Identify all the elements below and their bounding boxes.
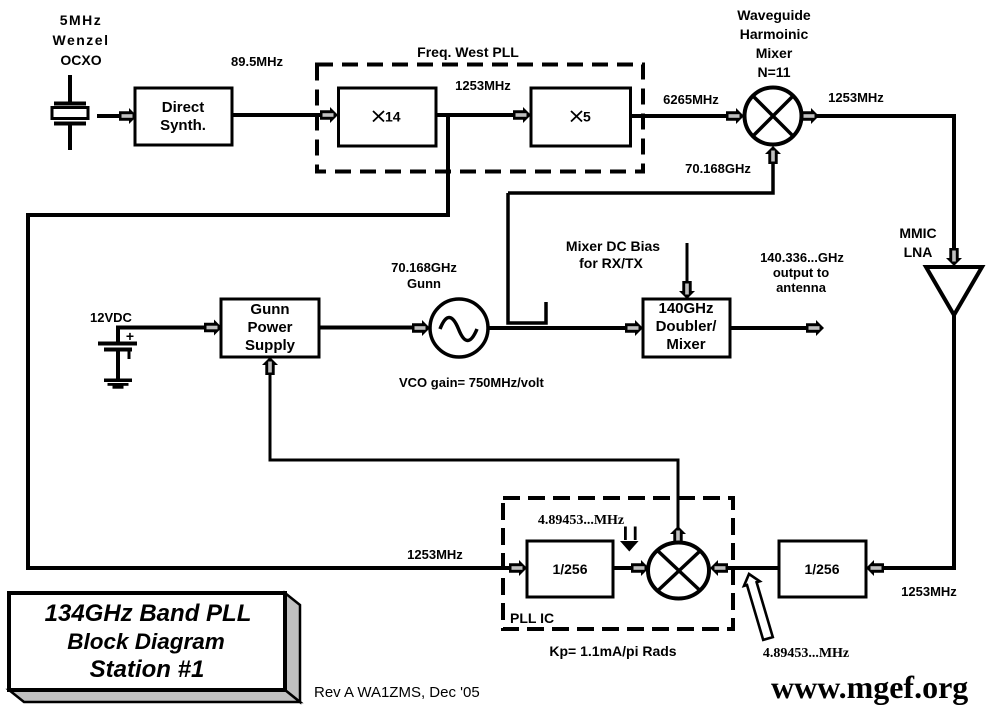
wire mixer DC bias [686, 243, 689, 285]
svg-text:Direct: Direct [162, 99, 205, 116]
wire doubler output [730, 326, 806, 330]
mixer U2 phase detector [648, 543, 709, 599]
dashed box Freq. West PLL [317, 65, 643, 172]
wire X14 to X5 [436, 113, 516, 117]
box 140GHz Doubler/Mixer [643, 299, 730, 357]
arrow slanted callout to 4.89453 node [744, 574, 773, 640]
wire 70GHz run to harmonic mixer [508, 158, 773, 193]
amplifier MMIC LNA triangle [926, 267, 982, 315]
wire Gunn PS to Gunn oscillator [318, 326, 416, 330]
wire 70GHz pickup hook near Gunn [508, 193, 546, 323]
svg-text:MMIC: MMIC [899, 225, 936, 241]
svg-text:Power: Power [247, 319, 292, 336]
wire feedback from X14 junction to left 1/256 [28, 113, 512, 568]
wire LNA down to right 1/256 divider [882, 313, 954, 568]
arrow into harmonic mixer bottom [765, 146, 781, 164]
dashed box PLL IC [503, 498, 733, 629]
svg-text:5MHz: 5MHz [60, 12, 103, 28]
svg-text:1253MHz: 1253MHz [455, 78, 511, 93]
svg-text:OCXO: OCXO [60, 52, 101, 68]
svg-text:Synth.: Synth. [160, 117, 206, 134]
arrow into phase detector right [710, 560, 728, 576]
arrow into Gunn oscillator [412, 320, 430, 336]
svg-text:1253MHz: 1253MHz [828, 90, 884, 105]
svg-text:output to: output to [773, 265, 829, 280]
oscillator Gunn VCO [430, 299, 488, 357]
arrow double chevron down [620, 527, 639, 552]
wire PLL control: phase detector to Gunn PS [270, 370, 678, 528]
box Direct Synth [135, 88, 232, 145]
svg-text:Gunn: Gunn [407, 276, 441, 291]
svg-text:for RX/TX: for RX/TX [579, 255, 643, 271]
svg-text:6265MHz: 6265MHz [663, 92, 719, 107]
wire battery to Gunn Power Supply [116, 326, 207, 330]
arrow into Direct Synth [119, 108, 137, 124]
crystal Y1 (5MHz OCXO) [52, 75, 88, 150]
svg-text:Station #1: Station #1 [90, 656, 205, 683]
svg-text:Kp= 1.1mA/pi Rads: Kp= 1.1mA/pi Rads [549, 643, 676, 659]
svg-text:N=11: N=11 [757, 64, 790, 80]
arrow into phase detector left [631, 560, 649, 576]
arrow into right 1/256 divider [866, 560, 884, 576]
box Gunn Power Supply [221, 299, 319, 357]
label 140.336...GHz output to antenna [760, 250, 844, 295]
arrow out of harmonic mixer (right) [801, 108, 819, 124]
svg-text:4.89453...MHz: 4.89453...MHz [763, 646, 849, 661]
title block 3D box [9, 593, 300, 702]
wire Gunn oscillator to doubler [488, 326, 628, 330]
svg-text:PLL IC: PLL IC [510, 610, 554, 626]
wire right 1/256 to phase detector [722, 566, 779, 570]
svg-text:VCO gain= 750MHz/volt: VCO gain= 750MHz/volt [399, 375, 545, 390]
battery BT1 12VDC [98, 327, 137, 380]
arrow into left 1/256 [509, 560, 527, 576]
svg-text:Doubler/: Doubler/ [656, 318, 718, 335]
arrow into X5 [513, 107, 531, 123]
svg-text:5: 5 [583, 109, 591, 125]
label MMIC LNA [899, 225, 936, 260]
svg-text:Rev A WA1ZMS, Dec '05: Rev A WA1ZMS, Dec '05 [314, 684, 480, 701]
box right 1/256 divider [779, 541, 866, 597]
svg-text:4.89453...MHz: 4.89453...MHz [538, 513, 624, 528]
wire X5 to harmonic mixer [630, 114, 729, 118]
svg-text:89.5MHz: 89.5MHz [231, 54, 284, 69]
svg-text:140GHz: 140GHz [658, 300, 713, 317]
svg-text:Mixer DC Bias: Mixer DC Bias [566, 238, 660, 254]
label Mixer DC Bias for RX/TX [566, 238, 660, 271]
mixer U1 waveguide harmonic mixer [745, 88, 802, 145]
svg-text:14: 14 [385, 109, 401, 125]
svg-text:Waveguide: Waveguide [737, 7, 811, 23]
box left 1/256 divider [527, 541, 613, 597]
wire crystal to Direct Synth [97, 114, 122, 118]
svg-text:Mixer: Mixer [666, 336, 705, 353]
label Waveguide Harmoinic Mixer N=11 [737, 7, 811, 80]
arrow out of phase detector top [670, 526, 686, 544]
arrow into doubler top [679, 281, 695, 299]
wire Direct Synth to X14 [232, 113, 323, 117]
svg-text:70.168GHz: 70.168GHz [685, 161, 751, 176]
label 5MHz Wenzel OCXO [53, 12, 110, 68]
svg-text:1/256: 1/256 [804, 561, 839, 577]
svg-text:1253MHz: 1253MHz [901, 584, 957, 599]
svg-text:12VDC: 12VDC [90, 310, 133, 325]
svg-text:70.168GHz: 70.168GHz [391, 260, 457, 275]
svg-text:Supply: Supply [245, 337, 296, 354]
svg-text:Harmoinic: Harmoinic [740, 26, 809, 42]
svg-text:Mixer: Mixer [756, 45, 793, 61]
arrow into Gunn PS bottom [262, 357, 278, 375]
svg-text:Freq. West PLL: Freq. West PLL [417, 44, 519, 60]
wire left 1/256 to phase detector [613, 566, 634, 570]
svg-text:140.336...GHz: 140.336...GHz [760, 250, 844, 265]
arrow into doubler [625, 320, 643, 336]
label 70.168GHz Gunn [391, 260, 457, 291]
svg-text:134GHz Band PLL: 134GHz Band PLL [45, 600, 252, 627]
arrow into MMIC LNA [946, 248, 962, 266]
svg-text:LNA: LNA [904, 244, 933, 260]
svg-text:Wenzel: Wenzel [53, 32, 110, 48]
arrow output to antenna [806, 320, 824, 336]
ground below battery [104, 379, 132, 389]
svg-text:1253MHz: 1253MHz [407, 547, 463, 562]
wire harmonic mixer to MMIC LNA [816, 116, 954, 251]
svg-text:antenna: antenna [776, 280, 827, 295]
arrow into harmonic mixer [726, 108, 744, 124]
svg-text:Block Diagram: Block Diagram [67, 629, 225, 654]
svg-text:1/256: 1/256 [552, 561, 587, 577]
svg-text:Gunn: Gunn [250, 301, 289, 318]
arrow into Gunn Power Supply [204, 320, 222, 336]
box X14 multiplier [339, 88, 437, 146]
box X5 multiplier [531, 88, 631, 146]
arrow into X14 [320, 107, 338, 123]
svg-text:www.mgef.org: www.mgef.org [771, 669, 968, 705]
